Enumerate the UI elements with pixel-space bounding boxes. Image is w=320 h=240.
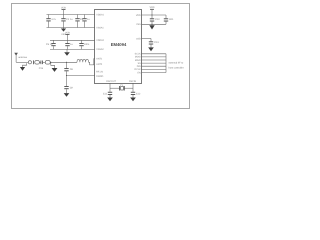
power VDD symbol bank1 xyxy=(61,6,66,14)
ground shunt branch xyxy=(64,93,70,97)
capacitor C14 xyxy=(164,15,174,24)
ground bank2 xyxy=(64,49,70,55)
ground VSS right xyxy=(149,24,154,29)
svg-text:OSCOUT: OSCOUT xyxy=(106,80,116,83)
svg-text:host controller: host controller xyxy=(169,66,184,69)
svg-text:VDDA1: VDDA1 xyxy=(96,13,104,16)
wire bus line 3 xyxy=(142,59,167,61)
capacitor C7 xyxy=(79,40,90,49)
svg-text:MISO: MISO xyxy=(135,59,141,62)
svg-text:SCLK: SCLK xyxy=(135,53,141,56)
svg-text:VDD: VDD xyxy=(136,14,141,17)
svg-text:C5 1u: C5 1u xyxy=(46,43,53,46)
inductor L2 (stadium) xyxy=(35,61,41,65)
wire bus line 2 xyxy=(142,56,167,58)
svg-text:EN: EN xyxy=(137,71,141,74)
wire bus line 1 xyxy=(142,53,167,55)
power VDD symbol bank2 xyxy=(65,31,70,40)
ground connector shield xyxy=(20,63,27,71)
node interface note xyxy=(169,61,184,69)
wire bank2 bottom rail xyxy=(50,48,95,50)
svg-text:ANT1: ANT1 xyxy=(96,57,103,60)
svg-text:VSS: VSS xyxy=(136,23,141,26)
capacitor C15 (series) xyxy=(39,61,46,71)
connector X1 xyxy=(28,61,31,64)
capacitor C10 xyxy=(150,15,160,24)
border frame xyxy=(12,4,190,109)
ground C13 xyxy=(148,47,154,51)
capacitor C13 xyxy=(149,39,159,48)
wire VDD pin right xyxy=(142,14,167,16)
svg-text:C15: C15 xyxy=(39,67,44,70)
capacitor C4 xyxy=(82,15,90,28)
capacitor C12 xyxy=(131,92,141,98)
svg-text:VSSA1: VSSA1 xyxy=(96,26,104,29)
wire bus line 7 xyxy=(142,72,167,74)
svg-text:C10: C10 xyxy=(155,18,160,21)
ground bank1 xyxy=(61,28,66,37)
wire RF_IN xyxy=(67,75,96,77)
node junction dots xyxy=(50,14,152,76)
svg-text:external I/F to: external I/F to xyxy=(169,61,184,64)
svg-text:EM4094: EM4094 xyxy=(111,42,127,47)
wire bank1 top rail xyxy=(47,14,96,16)
svg-text:VDD: VDD xyxy=(149,6,154,9)
connector plate xyxy=(32,60,34,64)
wire bank1 bottom rail xyxy=(47,27,96,29)
svg-text:VSSA2: VSSA2 xyxy=(96,48,104,51)
svg-text:DCLK: DCLK xyxy=(135,68,142,71)
op-amp U1 EM4094 IC body xyxy=(95,10,142,84)
svg-text:4.7u: 4.7u xyxy=(51,18,56,21)
wire main antenna line xyxy=(50,61,77,63)
wire bus line 5 xyxy=(142,65,167,67)
wire antenna to connector xyxy=(16,61,28,63)
inductor L1 xyxy=(77,59,89,62)
ground after matching xyxy=(51,62,58,72)
wire OSCIN drop xyxy=(132,83,134,92)
svg-text:C11: C11 xyxy=(103,92,108,95)
svg-text:xOD: xOD xyxy=(136,37,141,40)
svg-text:antenna: antenna xyxy=(18,56,27,59)
svg-text:100n: 100n xyxy=(84,43,90,46)
node shunt junction xyxy=(66,62,68,68)
wire DOUT pin xyxy=(142,38,152,40)
svg-text:C13: C13 xyxy=(154,41,159,44)
capacitor C2 xyxy=(61,15,73,28)
svg-text:DMOD: DMOD xyxy=(96,75,103,78)
svg-text:SS: SS xyxy=(138,62,142,65)
wire bus vertical xyxy=(165,54,167,73)
svg-text:VDD: VDD xyxy=(61,6,66,9)
wire VSS pin right xyxy=(142,23,167,25)
power VDD symbol right xyxy=(149,6,154,15)
svg-text:RF_IN: RF_IN xyxy=(96,70,103,73)
wire OSCOUT drop xyxy=(109,83,111,92)
capacitor C6 xyxy=(65,40,73,49)
svg-text:OSCIN: OSCIN xyxy=(129,80,137,83)
wire bus line 4 xyxy=(142,62,167,64)
wire bank2 top rail xyxy=(50,39,95,41)
ground OSCIN xyxy=(130,98,136,102)
capacitor C8 xyxy=(64,68,73,86)
capacitor C11 xyxy=(103,92,112,98)
wire antenna to ANT pins xyxy=(89,59,95,65)
wire bus line 6 xyxy=(142,68,167,70)
capacitor C1 xyxy=(46,15,56,28)
svg-text:VDD: VDD xyxy=(65,31,70,34)
svg-text:MOSI: MOSI xyxy=(135,56,141,59)
svg-text:R11: R11 xyxy=(169,18,174,21)
svg-text:ANT2: ANT2 xyxy=(96,63,103,66)
inductor L3 (stadium) xyxy=(45,61,50,65)
ground OSCOUT xyxy=(107,98,113,102)
svg-text:VDDA2: VDDA2 xyxy=(96,39,104,42)
capacitor C3 xyxy=(75,15,83,28)
svg-text:DIN: DIN xyxy=(137,65,141,68)
capacitor C9 xyxy=(64,86,73,93)
antenna ANT xyxy=(14,53,27,63)
svg-text:C2 1u: C2 1u xyxy=(66,18,73,21)
capacitor C5 xyxy=(46,40,56,49)
crystal Y1 xyxy=(110,84,133,91)
svg-text:C12: C12 xyxy=(136,92,141,95)
